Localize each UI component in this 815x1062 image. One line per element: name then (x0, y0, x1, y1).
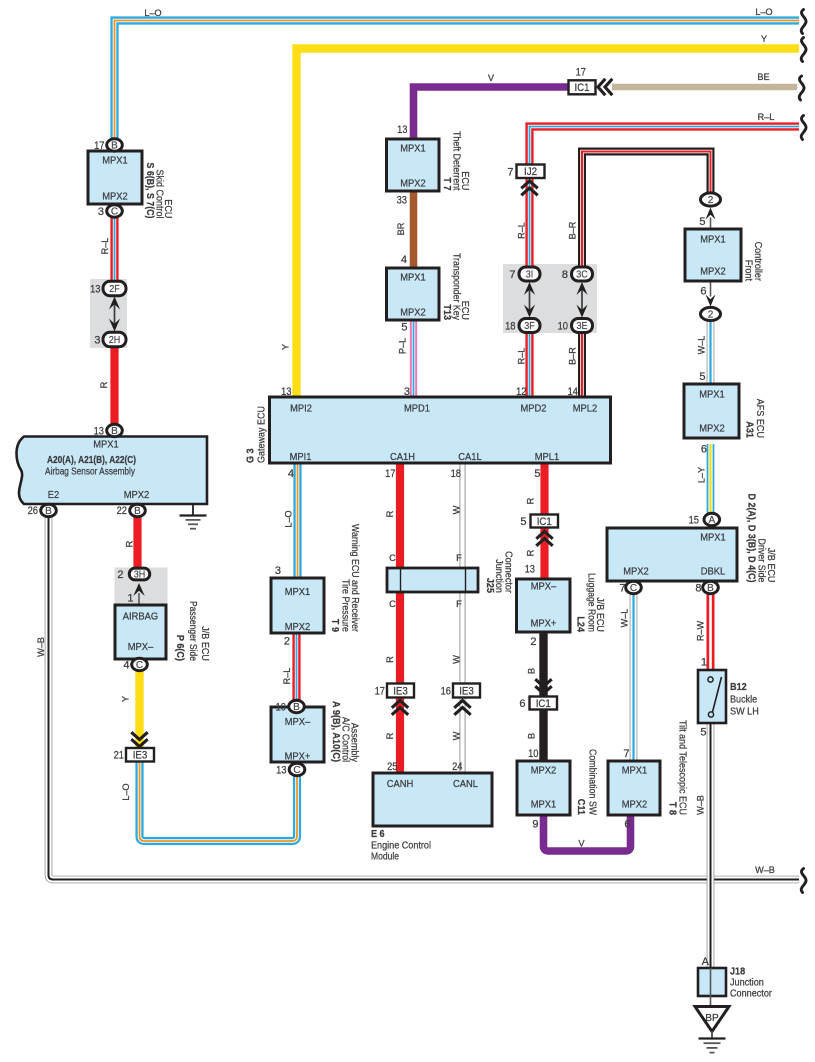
svg-text:A31: A31 (744, 421, 755, 438)
svg-text:25: 25 (387, 761, 397, 773)
svg-text:W–L: W–L (620, 609, 630, 628)
double arrow 3I-3F (524, 282, 535, 318)
svg-text:17: 17 (375, 686, 385, 698)
svg-text:MPD1: MPD1 (404, 404, 430, 415)
svg-text:IC1: IC1 (536, 698, 551, 710)
svg-text:MPX1: MPX1 (700, 235, 726, 246)
svg-text:14: 14 (568, 386, 578, 398)
svg-text:3: 3 (404, 386, 410, 398)
junction IC1 5 (531, 515, 559, 528)
svg-text:SW LH: SW LH (730, 707, 759, 718)
oval 2 upper Front Controller (701, 193, 721, 206)
wire R connector 2H to Airbag Sensor pin B (110, 347, 118, 426)
wire B from IC1 to Combination SW (539, 709, 547, 762)
svg-text:R: R (385, 656, 395, 663)
pin oval B A/C Control (289, 700, 305, 713)
svg-text:B12: B12 (730, 682, 747, 693)
label Engine Control Module (371, 829, 431, 863)
svg-text:Gateway ECU: Gateway ECU (257, 406, 268, 463)
ECU E6 Engine Control Module (373, 773, 492, 826)
svg-text:W–B: W–B (755, 865, 775, 875)
svg-text:B: B (527, 668, 537, 674)
svg-text:W: W (452, 731, 462, 740)
svg-text:26: 26 (28, 505, 38, 517)
chevrons right of IC1 (598, 79, 612, 95)
svg-text:Front: Front (743, 260, 754, 281)
svg-text:MPX1: MPX1 (622, 766, 648, 777)
connector 2F (103, 281, 126, 295)
svg-text:24: 24 (452, 761, 462, 773)
svg-text:CANH: CANH (387, 779, 414, 790)
svg-text:MPX1: MPX1 (700, 533, 726, 544)
svg-text:2H: 2H (109, 335, 121, 346)
svg-text:Controller: Controller (752, 242, 763, 282)
pin oval C Passenger J/B (132, 658, 148, 671)
svg-text:BP: BP (705, 1013, 719, 1024)
wire R-L Skid Control ECU to connector 2F (110, 217, 118, 282)
arrow AIRBAG to connector 3H (133, 583, 145, 605)
svg-text:L–Y: L–Y (697, 467, 707, 483)
svg-text:6: 6 (700, 286, 706, 298)
arrow Front Controller pin 5 to oval 2 (706, 208, 716, 230)
svg-text:MPX2: MPX2 (400, 308, 426, 319)
svg-text:Junction: Junction (730, 978, 764, 989)
ECU T13 Transponder Key ECU (387, 268, 440, 320)
wire BR Theft Deterrent to Transponder Key ECU (410, 191, 418, 268)
pin oval B Airbag Sensor MPX2 (130, 504, 146, 517)
svg-text:Combination SW: Combination SW (587, 749, 598, 815)
label Gateway ECU (246, 406, 268, 463)
svg-text:J18: J18 (730, 967, 745, 978)
wire R-L from break to junction IJ2 (530, 127, 800, 165)
svg-text:B: B (293, 702, 300, 713)
svg-text:13: 13 (397, 124, 407, 136)
svg-text:DBKL: DBKL (701, 567, 726, 578)
svg-text:V: V (578, 839, 585, 849)
svg-text:MPX1: MPX1 (400, 273, 426, 284)
svg-text:AIRBAG: AIRBAG (123, 612, 158, 623)
wire R from IE3 to ECM CANH (396, 697, 404, 774)
svg-text:21: 21 (114, 750, 124, 762)
svg-text:4: 4 (288, 468, 294, 480)
svg-text:R–L: R–L (517, 348, 527, 365)
wire L-Y AFS ECU to Driver Side J/B ECU (707, 444, 715, 514)
svg-text:1: 1 (127, 593, 133, 605)
wire R-L from IJ2 to connector 3I (525, 177, 533, 267)
break symbol L-O (801, 10, 806, 34)
junction IE3 17 (387, 684, 414, 698)
break symbol W-B (801, 869, 806, 893)
ECU A31 AFS ECU (684, 384, 739, 438)
pin oval B Airbag Sensor (107, 424, 123, 437)
svg-text:3: 3 (98, 206, 104, 218)
svg-text:3I: 3I (526, 269, 534, 280)
svg-text:13: 13 (281, 386, 291, 398)
svg-text:Connector: Connector (503, 551, 514, 593)
wire R Airbag Sensor pin 22 to connector 3H (133, 516, 141, 568)
svg-text:5: 5 (699, 216, 705, 228)
junction IJ2 (517, 165, 545, 179)
double arrow 3C-3E (576, 282, 587, 318)
ECU Airbag Sensor Assembly (17, 437, 208, 505)
svg-text:7: 7 (509, 269, 515, 281)
svg-text:S 6(B), S 7(C): S 6(B), S 7(C) (144, 163, 155, 219)
svg-text:B–R: B–R (568, 221, 578, 239)
svg-text:IE3: IE3 (393, 685, 408, 697)
svg-text:3C: 3C (576, 269, 588, 280)
arrow Front Controller pin 6 to oval 2 (706, 281, 716, 307)
svg-text:Tire Pressure: Tire Pressure (340, 579, 351, 632)
svg-text:CA1H: CA1H (390, 452, 415, 463)
svg-text:C: C (136, 660, 143, 671)
svg-text:J/B ECU: J/B ECU (594, 597, 605, 632)
svg-text:MPX1: MPX1 (699, 390, 725, 401)
svg-text:T 7: T 7 (441, 177, 452, 190)
svg-text:MPX2: MPX2 (102, 192, 128, 203)
wire Y Passenger J/B ECU pin 4 to IE3 (135, 670, 143, 748)
chevrons below IE3 17 (392, 701, 408, 715)
svg-text:3H: 3H (134, 569, 146, 580)
oval 2 lower Front Controller (701, 307, 721, 320)
svg-text:A20(A), A21(B), A22(C): A20(A), A21(B), A22(C) (47, 455, 136, 466)
svg-text:7: 7 (507, 167, 513, 179)
wire R-L Tire Pressure ECU to A/C Control Assembly (292, 633, 300, 702)
svg-text:MPX+: MPX+ (531, 619, 557, 630)
svg-text:MPX1: MPX1 (93, 440, 119, 451)
svg-text:T13: T13 (441, 304, 452, 320)
svg-text:10: 10 (276, 702, 286, 714)
svg-text:Junction: Junction (493, 559, 504, 593)
label Tire Pressure Warning ECU and Receiver (329, 524, 360, 633)
svg-text:13: 13 (90, 284, 100, 296)
svg-text:E2: E2 (48, 490, 60, 501)
svg-text:13: 13 (525, 564, 535, 576)
svg-text:4: 4 (123, 660, 129, 672)
pin oval C Skid Control (107, 205, 123, 218)
ground BP triangle (695, 1007, 729, 1040)
svg-text:MPX–: MPX– (531, 582, 557, 593)
svg-text:B: B (111, 426, 118, 437)
svg-text:17: 17 (94, 140, 104, 152)
svg-text:L–O: L–O (755, 7, 772, 17)
pin oval A Driver Side J/B (704, 513, 720, 526)
pin oval C A/C Control (289, 763, 305, 776)
svg-text:7: 7 (623, 748, 629, 760)
svg-text:R: R (385, 732, 395, 739)
junction connector J25 (387, 568, 478, 592)
svg-text:R–L: R–L (517, 222, 527, 239)
svg-text:33: 33 (397, 195, 407, 207)
wire W from IE3 to ECM CANL (460, 697, 466, 774)
svg-text:MPX–: MPX– (285, 717, 311, 728)
label Front Controller (743, 242, 764, 282)
svg-text:B: B (527, 733, 537, 739)
svg-text:MPX2: MPX2 (124, 490, 150, 501)
svg-text:ECU: ECU (162, 199, 173, 218)
svg-text:13: 13 (276, 765, 286, 777)
double arrow 2F-2H (109, 297, 120, 332)
connector 3F (519, 319, 540, 333)
svg-text:3: 3 (275, 565, 281, 577)
junction IC1 6 (530, 697, 558, 710)
svg-text:L–O: L–O (121, 783, 131, 800)
label Tilt and Telescopic ECU (667, 720, 688, 815)
svg-text:B: B (111, 141, 118, 152)
shade behind connector 3H (115, 568, 168, 605)
svg-text:Buckle: Buckle (730, 695, 757, 706)
svg-text:C: C (630, 583, 637, 594)
ECU G3 Gateway ECU (270, 397, 611, 463)
svg-text:5: 5 (699, 371, 705, 383)
svg-text:IC1: IC1 (537, 516, 552, 528)
pin oval B Skid Control (107, 139, 123, 152)
wire W-B Airbag Sensor pin 26 to right break (49, 516, 800, 880)
svg-text:1: 1 (701, 657, 707, 669)
svg-text:W: W (452, 655, 462, 664)
svg-text:R: R (526, 497, 536, 504)
svg-text:Driver Side: Driver Side (756, 539, 767, 583)
svg-text:MPX2: MPX2 (622, 800, 648, 811)
svg-text:3F: 3F (524, 321, 535, 332)
wire Y from break to Gateway ECU MPI2 (297, 49, 800, 398)
wire W-L oval 2 to AFS ECU (707, 321, 715, 385)
svg-text:R–L: R–L (282, 668, 292, 685)
svg-text:18: 18 (505, 321, 515, 333)
svg-text:BE: BE (757, 72, 769, 82)
ground at Airbag Sensor Assembly (180, 504, 207, 529)
svg-text:2: 2 (530, 636, 536, 648)
svg-text:MPX2: MPX2 (699, 424, 725, 435)
svg-text:2: 2 (284, 636, 290, 648)
svg-text:MPX–: MPX– (128, 642, 154, 653)
svg-text:8: 8 (562, 269, 568, 281)
svg-text:W: W (452, 505, 462, 514)
svg-text:15: 15 (689, 515, 699, 527)
pin oval C Driver Side J/B (626, 581, 642, 594)
svg-text:P 6(C): P 6(C) (174, 635, 185, 661)
svg-text:R–L: R–L (100, 238, 110, 255)
wire B-R from connector 3C to Front Controller oval 2 (582, 152, 711, 268)
svg-text:T 8: T 8 (667, 802, 678, 815)
svg-text:16: 16 (441, 686, 451, 698)
svg-text:MPD2: MPD2 (521, 404, 547, 415)
svg-text:12: 12 (516, 386, 526, 398)
svg-text:R: R (125, 540, 135, 547)
wire R Gateway CA1H to junction J25 and IE3 (396, 463, 404, 684)
svg-text:A: A (702, 956, 710, 968)
svg-text:C: C (111, 207, 118, 218)
svg-text:C: C (293, 765, 300, 776)
wire L-O from IE3 21 to A/C Control Assembly (140, 762, 298, 842)
ECU T7 Theft Deterrent ECU (387, 139, 440, 191)
svg-text:17: 17 (576, 67, 586, 79)
shade behind connectors 2F-2H (90, 279, 127, 348)
ECU L24 Luggage Room J/B ECU (517, 579, 571, 632)
svg-text:Module: Module (371, 852, 399, 863)
label J25 Junction Connector (484, 551, 514, 593)
wire B Luggage Room J/B ECU to IC1 (539, 632, 547, 697)
wire W-B Buckle SW to J18 (707, 723, 715, 969)
svg-text:MPI2: MPI2 (290, 404, 312, 415)
svg-text:IE3: IE3 (459, 685, 474, 697)
svg-text:L–O: L–O (144, 8, 161, 18)
label Combination SW (575, 749, 598, 815)
junction IE3 21 (126, 748, 154, 762)
connector 3I (519, 267, 540, 281)
svg-text:CANL: CANL (453, 779, 478, 790)
svg-text:T 9: T 9 (329, 619, 340, 632)
chevrons below IJ2 (521, 181, 537, 195)
label Buckle SW LH (730, 682, 759, 718)
svg-text:F: F (456, 553, 462, 563)
svg-text:R: R (526, 549, 536, 556)
svg-text:F: F (456, 599, 462, 609)
svg-text:Connector: Connector (730, 989, 772, 1000)
svg-text:R–L: R–L (758, 112, 775, 122)
wire V Combination SW to Tilt and Telescopic ECU (544, 815, 631, 852)
wire W Gateway CA1L through J25 to IE3 (460, 463, 466, 684)
svg-text:W–L: W–L (697, 336, 707, 355)
svg-text:MPX+: MPX+ (285, 752, 311, 763)
svg-text:MPX2: MPX2 (700, 267, 726, 278)
label A/C Control Assembly (330, 701, 360, 763)
svg-text:MPX1: MPX1 (531, 800, 557, 811)
svg-text:J/B ECU: J/B ECU (765, 548, 776, 583)
svg-text:8: 8 (695, 583, 701, 595)
svg-text:MPX1: MPX1 (285, 587, 311, 598)
svg-text:10: 10 (558, 321, 568, 333)
svg-text:L24: L24 (575, 616, 586, 632)
svg-text:2: 2 (708, 195, 714, 206)
svg-text:Y: Y (761, 34, 767, 44)
junction IC1 top (569, 80, 596, 94)
svg-text:Assembly: Assembly (349, 723, 360, 763)
svg-text:Warning ECU and Receiver: Warning ECU and Receiver (349, 524, 360, 633)
svg-text:Engine Control: Engine Control (371, 841, 431, 852)
break symbol BE (799, 76, 804, 100)
svg-text:R: R (385, 510, 395, 517)
svg-text:A: A (708, 515, 715, 526)
wire BE from IC1 to break (612, 84, 797, 91)
svg-text:B: B (707, 583, 714, 594)
wire R-L from connector 3F to Gateway ECU MPD2 (525, 333, 533, 397)
label Theft Deterrent ECU (441, 131, 470, 191)
svg-text:4: 4 (401, 254, 407, 266)
svg-text:17: 17 (385, 468, 395, 480)
wire R Gateway MPL1 to IC1 (540, 463, 548, 515)
svg-text:B: B (134, 506, 141, 517)
label Transponder Key ECU (441, 253, 470, 321)
label Passenger Side J/B ECU (174, 601, 210, 661)
wire R-W Driver Side J/B ECU to Buckle SW (707, 594, 715, 671)
svg-text:MPI1: MPI1 (290, 452, 312, 463)
svg-text:J/B ECU: J/B ECU (199, 626, 210, 661)
connector 3E (572, 319, 593, 333)
svg-text:Airbag Sensor Assembly: Airbag Sensor Assembly (45, 467, 136, 478)
svg-text:Y: Y (121, 696, 131, 702)
svg-text:Y: Y (281, 344, 291, 350)
pin oval B Airbag Sensor E2 (41, 504, 57, 517)
svg-text:5: 5 (520, 516, 526, 528)
label J18 Junction Connector (730, 967, 772, 1000)
wire V from IC1 to Theft Deterrent ECU (414, 87, 570, 139)
svg-text:5: 5 (534, 468, 540, 480)
svg-text:6: 6 (701, 444, 707, 456)
break symbol R-L (801, 116, 806, 140)
svg-text:BR: BR (396, 222, 406, 235)
pin oval B Driver Side J/B (703, 581, 719, 594)
svg-text:13: 13 (94, 426, 104, 438)
svg-text:9: 9 (532, 819, 538, 831)
break symbol Y (801, 38, 806, 62)
wire B-R from connector 3E to Gateway ECU MPL2 (578, 333, 586, 397)
chevrons above IE3 21 (131, 732, 147, 746)
chevrons below IE3 16 (454, 701, 470, 715)
ECU P6 Passenger Side J/B ECU (115, 605, 166, 659)
wire L-O from break to Skid Control ECU pin B (115, 21, 800, 141)
svg-text:3E: 3E (577, 321, 588, 332)
svg-text:IE3: IE3 (133, 750, 148, 762)
connector 3H (129, 568, 149, 580)
connector 2H (103, 332, 126, 346)
svg-text:Passenger Side: Passenger Side (187, 601, 198, 661)
svg-text:10: 10 (528, 748, 538, 760)
svg-text:ECU: ECU (459, 171, 470, 190)
ECU D2/D3/D4 Driver Side J/B ECU (607, 528, 737, 581)
svg-text:V: V (488, 73, 495, 83)
svg-text:P–L: P–L (398, 338, 408, 354)
svg-text:AFS ECU: AFS ECU (754, 399, 765, 438)
svg-text:MPX2: MPX2 (285, 622, 311, 633)
svg-text:2F: 2F (109, 284, 120, 295)
junction connector J18 (698, 968, 726, 1006)
svg-text:ECU: ECU (459, 301, 470, 320)
svg-text:22: 22 (117, 505, 127, 517)
switch B12 Buckle SW LH (698, 670, 726, 723)
chevrons above IC1 6 (535, 679, 551, 693)
wire P-L Transponder Key ECU to Gateway ECU MPD1 (410, 321, 417, 398)
ground below BP (699, 1032, 726, 1053)
ECU A9/A10 A/C Control Assembly (271, 707, 324, 762)
svg-text:W–B: W–B (36, 637, 46, 657)
svg-text:C11: C11 (575, 799, 586, 815)
svg-text:MPX2: MPX2 (623, 567, 649, 578)
ECU Front Controller (685, 229, 741, 281)
svg-text:E 6: E 6 (371, 829, 385, 840)
svg-text:IC1: IC1 (574, 82, 589, 94)
svg-text:MPX1: MPX1 (400, 144, 426, 155)
svg-text:5: 5 (700, 727, 706, 739)
svg-text:R: R (99, 381, 109, 388)
svg-text:R–W: R–W (696, 621, 706, 642)
svg-text:2: 2 (117, 569, 123, 581)
shade behind connectors 3I/3C/3F/3E (503, 264, 597, 333)
svg-text:A 9(B), A10(C): A 9(B), A10(C) (330, 701, 341, 762)
svg-text:MPL1: MPL1 (535, 452, 560, 463)
svg-text:2: 2 (708, 310, 714, 321)
label AFS ECU (744, 399, 766, 439)
ECU T8 Tilt and Telescopic ECU (608, 761, 660, 815)
svg-text:Tilt and Telescopic ECU: Tilt and Telescopic ECU (677, 720, 688, 815)
wire W-L Driver Side J/B ECU to Tilt and Telescopic ECU (630, 594, 638, 763)
chevrons below IC1 5 (536, 532, 552, 546)
label Driver Side J/B ECU (746, 494, 777, 583)
svg-text:G 3: G 3 (246, 448, 257, 463)
svg-text:6: 6 (519, 698, 525, 710)
svg-text:18: 18 (451, 468, 461, 480)
junction IE3 16 (453, 684, 480, 698)
svg-text:C: C (389, 599, 396, 609)
